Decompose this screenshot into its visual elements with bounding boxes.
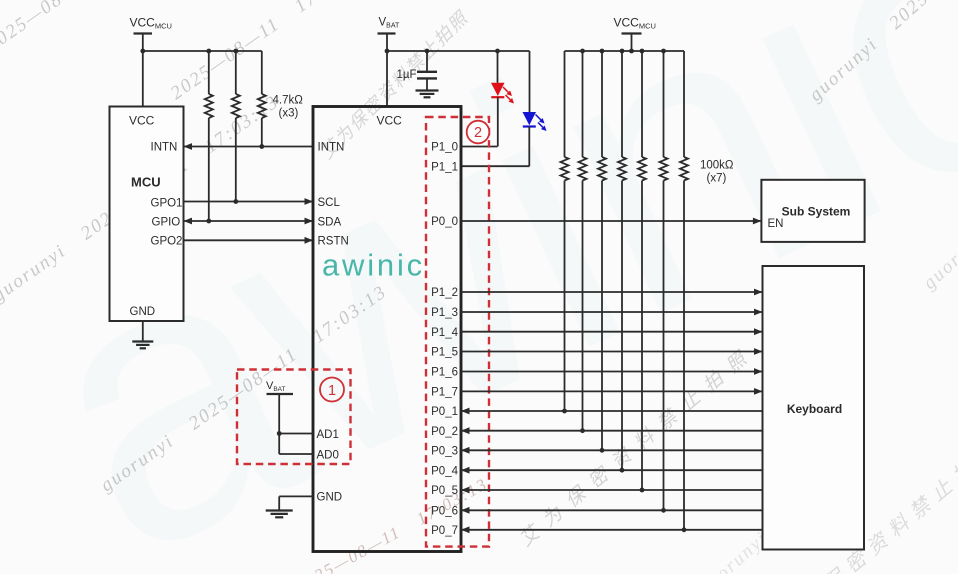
- node: VCC_MCU / pull-up bus junction: [140, 49, 145, 54]
- wire P1_5 to Keyboard: [461, 348, 763, 355]
- label 1uF: [396, 69, 416, 81]
- svg-text:P1_3: P1_3: [431, 307, 458, 319]
- pin P1_1 (U1): [431, 161, 458, 173]
- wire: right pull-up bus: [565, 50, 685, 52]
- pin P0_7 (U1): [431, 525, 458, 537]
- svg-text:P0_4: P0_4: [431, 465, 458, 477]
- label MCU: [131, 175, 161, 190]
- resistor R2 4.7k (SCL pull-up): [232, 51, 240, 202]
- resistor R10 100k (P0_7 pull-up): [680, 51, 688, 530]
- svg-text:P1_6: P1_6: [431, 367, 458, 379]
- capacitor C1 1uF: [417, 51, 437, 90]
- label awinic logo: [322, 248, 425, 283]
- power VCC_MCU (right): [614, 16, 656, 52]
- pin P1_2 (U1): [431, 287, 458, 299]
- svg-text:P0_6: P0_6: [431, 506, 458, 518]
- svg-text:EN: EN: [768, 218, 784, 230]
- pin GPO1 (MCU): [151, 197, 183, 209]
- wire P0_1 to Keyboard: [461, 408, 763, 415]
- svg-text:P1_1: P1_1: [431, 161, 458, 173]
- wire P0_2 to Keyboard: [461, 427, 763, 434]
- svg-text:1µF: 1µF: [396, 69, 416, 81]
- svg-text:RSTN: RSTN: [318, 236, 349, 248]
- wire: VBAT top bus: [387, 50, 530, 52]
- wire: left pull-up bus: [143, 50, 262, 52]
- node: bus-LED1: [495, 49, 500, 54]
- svg-text:P1_5: P1_5: [431, 347, 458, 359]
- node: bus-R2: [233, 49, 238, 54]
- pin P1_0 (U1): [431, 142, 458, 154]
- wire P0_0 to Sub System EN: [461, 218, 761, 225]
- svg-text:AD0: AD0: [317, 449, 339, 461]
- wire AD0: [279, 453, 313, 455]
- wire INTN: [184, 143, 314, 150]
- wire P0_7 to Keyboard: [461, 526, 763, 533]
- node: bus-R7: [620, 49, 625, 54]
- node: VBAT junction: [385, 49, 390, 54]
- node: R2-SCL junction: [233, 199, 238, 204]
- node: VCC stem junction: [629, 49, 634, 54]
- ground (U1 GND): [266, 496, 313, 517]
- power V_BAT (AD strap): [266, 380, 293, 454]
- pin INTN (MCU): [151, 142, 178, 154]
- svg-text:INTN: INTN: [318, 142, 345, 154]
- svg-text:GND: GND: [130, 306, 156, 318]
- Keyboard box: [763, 266, 865, 550]
- node: R3-INTN junction: [259, 144, 264, 149]
- svg-text:MCU: MCU: [131, 175, 161, 190]
- node: R7-P0_4 junction: [620, 468, 625, 473]
- svg-text:SCL: SCL: [318, 197, 341, 209]
- pin P1_4 (U1): [431, 327, 458, 339]
- pin VCC (U1): [377, 114, 403, 128]
- svg-text:P1_4: P1_4: [431, 327, 458, 339]
- wire P1_6 to Keyboard: [461, 368, 763, 375]
- node: R10-P0_7 junction: [682, 527, 687, 532]
- Sub System box: [761, 180, 864, 242]
- svg-text:VCC: VCC: [129, 114, 155, 128]
- svg-text:P0_1: P0_1: [431, 406, 458, 418]
- pin SDA (U1): [318, 216, 342, 228]
- svg-text:2: 2: [474, 125, 482, 141]
- ground (MCU): [132, 321, 153, 348]
- svg-text:awinic: awinic: [322, 248, 425, 283]
- red dashed box 2 (P1/P0 pin column): [426, 117, 489, 547]
- wire LED1 to P1_0: [461, 146, 498, 148]
- resistor R7 100k (P0_4 pull-up): [618, 51, 626, 470]
- node: R9-P0_6 junction: [661, 508, 666, 513]
- svg-text:P0_0: P0_0: [431, 216, 458, 228]
- pin P0_5 (U1): [431, 485, 458, 497]
- svg-text:P0_5: P0_5: [431, 485, 458, 497]
- pin SCL (U1): [318, 197, 341, 209]
- pin P1_7 (U1): [431, 387, 458, 399]
- node: R5-P0_2 junction: [580, 428, 585, 433]
- svg-text:P1_7: P1_7: [431, 387, 458, 399]
- wire P0_6 to Keyboard: [461, 507, 763, 514]
- node: bus-C1: [425, 49, 430, 54]
- node: bus-R6: [600, 49, 605, 54]
- label 4.7kOhm (x3): [273, 95, 304, 120]
- node: R6-P0_3 junction: [600, 448, 605, 453]
- node: bus-R8: [640, 49, 645, 54]
- pin RSTN (U1): [318, 236, 349, 248]
- pin P0_1 (U1): [431, 406, 458, 418]
- resistor R4 100k (P0_1 pull-up): [561, 51, 569, 411]
- MCU U2 box: [110, 107, 184, 322]
- wire SDA (bidirectional): [184, 218, 314, 225]
- wire RSTN: [184, 237, 314, 244]
- svg-text:Keyboard: Keyboard: [787, 402, 842, 416]
- pin P1_6 (U1): [431, 367, 458, 379]
- LED D2 (blue): [523, 51, 547, 166]
- ground (C1): [416, 91, 439, 98]
- pin GPIO (MCU): [152, 216, 181, 228]
- pin P0_0 (U1): [431, 216, 458, 228]
- pin AD1 (U1): [317, 429, 339, 441]
- pin P1_3 (U1): [431, 307, 458, 319]
- svg-text:SDA: SDA: [318, 216, 342, 228]
- pin INTN (U1): [318, 142, 345, 154]
- node: R1-SDA junction: [206, 219, 211, 224]
- circled number 2: [467, 121, 490, 144]
- resistor R5 100k (P0_2 pull-up): [579, 51, 587, 431]
- svg-text:Sub System: Sub System: [782, 204, 851, 218]
- node: VBAT-AD1 junction: [277, 431, 282, 436]
- resistor R8 100k (P0_5 pull-up): [638, 51, 646, 490]
- power VCC_MCU (left): [130, 16, 172, 107]
- pin VCC (MCU): [129, 114, 155, 128]
- svg-text:INTN: INTN: [151, 142, 178, 154]
- svg-text:P1_2: P1_2: [431, 287, 458, 299]
- svg-text:(x7): (x7): [707, 173, 727, 185]
- pin GND (U1): [317, 492, 343, 504]
- wire P1_2 to Keyboard: [461, 289, 763, 296]
- pin P0_3 (U1): [431, 446, 458, 458]
- svg-text:(x3): (x3): [279, 108, 299, 120]
- svg-text:P0_7: P0_7: [431, 525, 458, 537]
- pin AD0 (U1): [317, 449, 339, 461]
- pin GND (MCU): [130, 306, 156, 318]
- svg-text:1: 1: [328, 383, 336, 399]
- svg-text:AD1: AD1: [317, 429, 339, 441]
- pin P1_5 (U1): [431, 347, 458, 359]
- wire SCL: [184, 198, 314, 205]
- node: bus-R1: [206, 49, 211, 54]
- pin P0_4 (U1): [431, 465, 458, 477]
- svg-text:GPO1: GPO1: [151, 197, 183, 209]
- wire P1_7 to Keyboard: [461, 388, 763, 395]
- power V_BAT (top): [378, 17, 400, 107]
- svg-text:GPIO: GPIO: [152, 216, 181, 228]
- wire LED2 to P1_1: [461, 165, 530, 167]
- label 100kOhm (x7): [700, 160, 734, 185]
- svg-text:100kΩ: 100kΩ: [700, 160, 734, 172]
- resistor R1 4.7k (SDA pull-up): [205, 51, 213, 221]
- wire P1_3 to Keyboard: [461, 309, 763, 316]
- svg-text:4.7kΩ: 4.7kΩ: [273, 95, 304, 107]
- resistor R3 4.7k (INTN pull-up): [258, 51, 266, 147]
- node: bus-R9: [661, 49, 666, 54]
- IC U1 awinic box: [313, 107, 461, 552]
- node: bus-R5: [580, 49, 585, 54]
- pin GPO2 (MCU): [151, 236, 183, 248]
- wire P1_4 to Keyboard: [461, 328, 763, 335]
- svg-text:P0_2: P0_2: [431, 426, 458, 438]
- wire P0_4 to Keyboard: [461, 467, 763, 474]
- wire P0_3 to Keyboard: [461, 447, 763, 454]
- node: R8-P0_5 junction: [640, 488, 645, 493]
- circled number 1: [320, 378, 344, 402]
- wire P0_5 to Keyboard: [461, 487, 763, 494]
- node: R4-P0_1 junction: [562, 409, 567, 414]
- resistor R6 100k (P0_3 pull-up): [598, 51, 606, 450]
- pin P0_2 (U1): [431, 426, 458, 438]
- red dashed box 1 (AD1/AD0 strap): [237, 370, 351, 465]
- svg-text:GND: GND: [317, 492, 343, 504]
- svg-text:VCC: VCC: [377, 114, 403, 128]
- pin P0_6 (U1): [431, 506, 458, 518]
- svg-text:P1_0: P1_0: [431, 142, 458, 154]
- LED D1 (red): [491, 51, 514, 147]
- wire AD1: [279, 433, 313, 435]
- svg-text:P0_3: P0_3: [431, 446, 458, 458]
- svg-text:GPO2: GPO2: [151, 236, 183, 248]
- resistor R9 100k (P0_6 pull-up): [660, 51, 668, 510]
